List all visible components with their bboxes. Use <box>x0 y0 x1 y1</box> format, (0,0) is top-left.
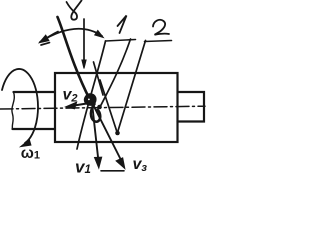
dot end of B <box>97 105 102 110</box>
dot end of leader 2 <box>115 131 120 136</box>
left stub break line <box>12 92 14 129</box>
short edge S near cutting zone <box>94 62 104 95</box>
vector v1 (down) <box>92 103 98 157</box>
leader line 2 (ends at dot) <box>118 41 146 133</box>
arc left arrowhead <box>40 35 49 42</box>
label 1 underline <box>106 40 136 42</box>
cutting contact blob <box>85 94 95 104</box>
vector v2 (left) <box>71 103 93 107</box>
centerline (dash-dot axis) <box>0 106 205 109</box>
tool edge B (from underline-1 right end, curves to dot) <box>100 39 131 107</box>
text labels <box>21 87 148 177</box>
vertical reference arrow <box>83 19 85 61</box>
tool edge A (from underline-1 left end, long, exits body bottom) <box>77 41 106 149</box>
gamma label <box>67 1 82 20</box>
label 2 <box>153 20 169 35</box>
arc right arrowhead <box>95 31 103 38</box>
right stub shaft <box>178 92 205 122</box>
branch to lower dot <box>100 80 117 132</box>
label 2 underline <box>145 41 172 42</box>
gamma angle arc <box>40 29 102 42</box>
vector vs (down-right) <box>93 104 121 160</box>
workpiece body <box>55 73 178 142</box>
label 1 <box>118 16 127 34</box>
triangle base line <box>101 170 124 172</box>
chip curl hook <box>91 104 100 122</box>
rotation ellipse omega1 <box>2 69 38 143</box>
rotation arrowhead <box>21 140 31 147</box>
tool face thick line <box>58 17 91 100</box>
left stub shaft <box>13 92 56 129</box>
